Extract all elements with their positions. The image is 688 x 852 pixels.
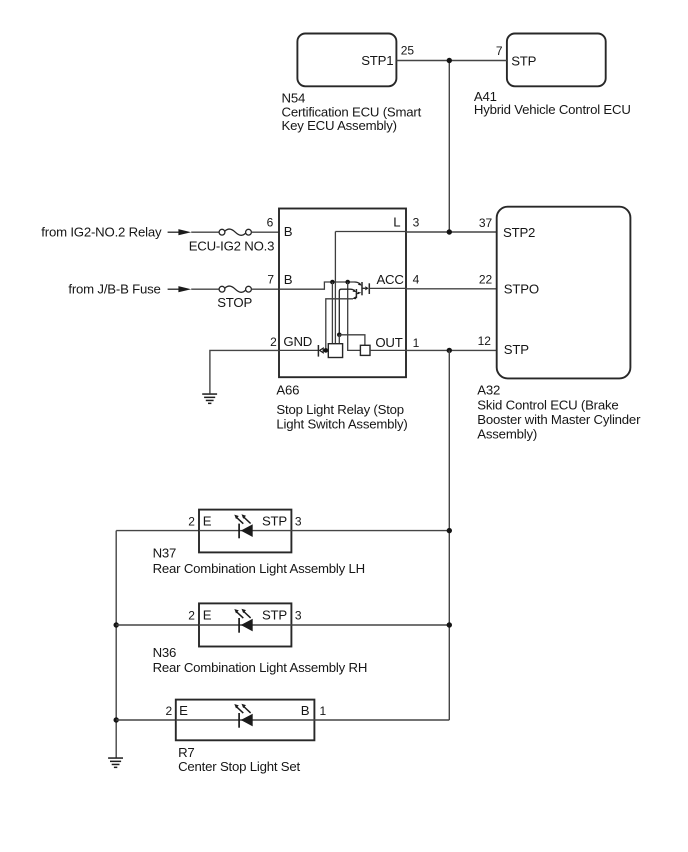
diode D1 to ACC xyxy=(362,287,365,289)
fuse ECU-IG2 NO.3 xyxy=(219,229,225,235)
ground symbol bottom left xyxy=(108,757,123,768)
lamp N36 box xyxy=(199,603,291,646)
wire ACC exit xyxy=(369,287,406,289)
svg-text:3: 3 xyxy=(295,609,302,623)
wire GND to ground xyxy=(210,350,279,393)
node internal dot c xyxy=(324,348,329,353)
wire L row to A32 STP2 xyxy=(406,231,497,233)
wire to resistor top xyxy=(339,335,365,346)
node junction R7 left xyxy=(114,717,119,722)
svg-text:ECU-IG2 NO.3: ECU-IG2 NO.3 xyxy=(189,239,275,254)
svg-text:6: 6 xyxy=(267,216,274,230)
relay coil box xyxy=(328,344,342,358)
svg-text:GND: GND xyxy=(283,334,312,349)
LED of N37 xyxy=(234,514,252,538)
svg-text:OUT: OUT xyxy=(375,335,402,350)
svg-text:E: E xyxy=(203,514,212,529)
wire N36 row left xyxy=(116,624,199,626)
arrow into row B6 xyxy=(168,231,180,233)
svg-text:STOP: STOP xyxy=(217,295,252,310)
node internal dot d xyxy=(337,333,342,338)
svg-text:1: 1 xyxy=(320,704,327,718)
wire N54 to A41 xyxy=(396,60,507,62)
svg-text:Rear Combination Light Assembl: Rear Combination Light Assembly LH xyxy=(153,561,365,576)
lamp R7 box xyxy=(176,700,315,741)
wire emitter return xyxy=(326,299,353,351)
svg-text:E: E xyxy=(179,703,188,718)
svg-text:STPO: STPO xyxy=(504,281,539,296)
svg-text:22: 22 xyxy=(479,273,493,287)
transistor Q1 xyxy=(355,282,360,284)
wire through R7 xyxy=(176,719,315,721)
node internal dot a xyxy=(330,280,335,285)
svg-text:from J/B-B Fuse: from J/B-B Fuse xyxy=(68,281,160,296)
ground symbol under relay xyxy=(202,393,217,404)
ECU N54 box xyxy=(297,34,396,87)
wire internal GND xyxy=(279,349,319,351)
svg-text:R7: R7 xyxy=(178,745,194,760)
node junction N37 right xyxy=(447,528,452,533)
svg-text:2: 2 xyxy=(188,515,195,529)
svg-text:Rear Combination Light Assembl: Rear Combination Light Assembly RH xyxy=(153,660,368,675)
svg-text:STP1: STP1 xyxy=(361,53,393,68)
wire ACC row to A32 STPO xyxy=(406,288,497,290)
node internal dot b xyxy=(345,280,350,285)
svg-text:Assembly): Assembly) xyxy=(477,426,537,441)
svg-text:Hybrid Vehicle Control ECU: Hybrid Vehicle Control ECU xyxy=(474,102,631,117)
wire through N36 xyxy=(199,624,291,626)
wire Q2 base to coil xyxy=(338,335,340,344)
wire OUT row to A32 STP xyxy=(406,349,497,351)
wire N37 row left xyxy=(116,530,199,532)
transistor Q2 xyxy=(339,289,354,335)
svg-text:3: 3 xyxy=(413,216,420,230)
svg-text:3: 3 xyxy=(295,515,302,529)
relay A66 box xyxy=(279,209,406,378)
svg-text:STP2: STP2 xyxy=(503,225,535,240)
svg-text:2: 2 xyxy=(270,335,277,349)
svg-text:STP: STP xyxy=(511,53,536,68)
svg-text:STP: STP xyxy=(504,342,529,357)
svg-text:STP: STP xyxy=(262,514,287,529)
svg-text:from IG2-NO.2 Relay: from IG2-NO.2 Relay xyxy=(41,224,162,239)
svg-text:12: 12 xyxy=(478,334,492,348)
wire internal L xyxy=(335,232,406,344)
node junction top xyxy=(447,58,452,63)
LED of R7 xyxy=(234,704,252,728)
svg-text:L: L xyxy=(393,215,400,230)
wire OUT exit xyxy=(370,349,406,351)
fuse STOP xyxy=(219,286,225,292)
svg-text:Booster with Master Cylinder: Booster with Master Cylinder xyxy=(477,412,641,427)
wire fuse to relay pin 7 xyxy=(251,288,279,290)
svg-text:N54: N54 xyxy=(282,90,306,105)
wire internal coil feed a xyxy=(331,282,333,344)
svg-text:ACC: ACC xyxy=(376,272,404,287)
svg-text:STP: STP xyxy=(262,608,287,623)
svg-text:Center Stop Light Set: Center Stop Light Set xyxy=(178,759,300,774)
svg-text:A32: A32 xyxy=(477,383,500,398)
resistor box xyxy=(360,345,370,355)
wire arrow to fuse STOP xyxy=(191,288,219,290)
svg-text:7: 7 xyxy=(267,273,274,287)
svg-text:E: E xyxy=(203,608,212,623)
svg-text:4: 4 xyxy=(413,273,420,287)
svg-text:B: B xyxy=(284,272,293,287)
wire arrow to fuse xyxy=(191,231,219,233)
node junction N36 left xyxy=(114,622,119,627)
lamp N37 box xyxy=(199,510,291,553)
svg-text:B: B xyxy=(284,224,293,239)
wire R7 row right xyxy=(314,719,449,721)
wire R7 row left xyxy=(116,719,176,721)
svg-text:Stop Light Relay (Stop: Stop Light Relay (Stop xyxy=(276,402,404,417)
svg-text:7: 7 xyxy=(496,44,503,58)
arrow into row B7 xyxy=(168,288,180,290)
node junction N36 right xyxy=(447,622,452,627)
ECU A32 box xyxy=(497,207,631,379)
wire N37 row right xyxy=(291,530,449,532)
wire fuse to relay pin 6 xyxy=(251,231,279,233)
wire internal pin7 step xyxy=(279,282,355,289)
wire junction down to STP2 row xyxy=(448,61,450,233)
wire internal to resistor row xyxy=(348,282,361,350)
ECU A41 box xyxy=(507,34,606,87)
svg-text:N36: N36 xyxy=(153,645,177,660)
svg-text:1: 1 xyxy=(413,336,420,350)
wire left bus xyxy=(115,531,117,758)
svg-text:2: 2 xyxy=(165,704,172,718)
svg-text:B: B xyxy=(301,703,310,718)
svg-text:37: 37 xyxy=(479,216,493,230)
diode D2 on GND xyxy=(317,345,319,357)
svg-text:A66: A66 xyxy=(276,382,299,397)
svg-text:25: 25 xyxy=(401,44,415,58)
wire N36 row right xyxy=(291,624,449,626)
svg-text:Light Switch Assembly): Light Switch Assembly) xyxy=(276,416,407,431)
svg-text:2: 2 xyxy=(188,609,195,623)
svg-text:Key ECU Assembly): Key ECU Assembly) xyxy=(282,118,397,133)
svg-text:Skid Control ECU (Brake: Skid Control ECU (Brake xyxy=(477,398,618,413)
LED of N36 xyxy=(234,609,252,633)
node junction STP2 row xyxy=(447,229,452,234)
svg-text:N37: N37 xyxy=(153,546,177,561)
emitter Q2 xyxy=(353,297,356,299)
wire through N37 xyxy=(199,530,291,532)
node junction STP row xyxy=(447,348,452,353)
link Q2 to Q1 xyxy=(356,292,359,294)
wire right bus down xyxy=(448,350,450,720)
